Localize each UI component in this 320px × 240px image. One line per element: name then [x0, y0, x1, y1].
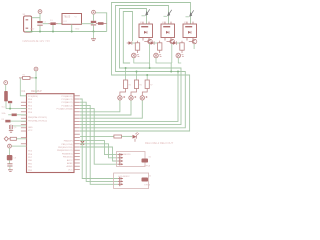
wire IC pin to lamp H3	[80, 100, 142, 118]
capacitor C8	[7, 155, 13, 160]
capacitor C9	[7, 163, 12, 165]
capacitor C6	[12, 114, 17, 117]
capacitor C7	[5, 120, 10, 123]
svg-text:AVCC: AVCC	[67, 159, 73, 162]
indicator lamp	[176, 53, 181, 58]
resistor R2	[135, 43, 139, 50]
svg-text:PB0: PB0	[28, 160, 33, 162]
relay K1	[139, 24, 153, 38]
wire IC2 gnd to rail	[71, 24, 73, 31]
svg-text:C8: C8	[14, 157, 17, 159]
transistor T2	[170, 39, 175, 44]
wire IC pin to JP1 pin1	[80, 141, 118, 155]
wire D1 to rail	[52, 25, 54, 32]
svg-text:R6: R6	[140, 85, 142, 87]
wire C5 down	[9, 103, 11, 108]
relay K2	[161, 24, 175, 38]
wire LED1 down stub	[134, 139, 136, 142]
wire P6 down	[35, 71, 37, 78]
wire IC pin to JP1 pin4	[80, 109, 118, 165]
svg-text:R5: R5	[129, 85, 131, 87]
svg-text:PD5: PD5	[28, 151, 33, 153]
wire net3 IC pin to relay K1	[80, 9, 181, 125]
svg-text:PB3: PB3	[28, 170, 33, 172]
svg-text:C1: C1	[43, 21, 46, 23]
resistor R3	[158, 43, 162, 50]
svg-text:PD0: PD0	[28, 99, 33, 101]
svg-text:Q1: Q1	[14, 127, 18, 129]
wire lamp to riser	[178, 58, 181, 63]
svg-text:IC2: IC2	[64, 21, 68, 23]
svg-text:R7: R7	[150, 85, 152, 87]
wire IC2 out	[82, 23, 94, 25]
wire IC pin to lamp H2	[80, 100, 131, 115]
wire R1 right to node	[33, 77, 36, 79]
svg-text:RX: RX	[2, 119, 5, 121]
capacitor C1	[37, 21, 42, 23]
grey arrow marker	[189, 12, 192, 17]
diode D5	[173, 41, 176, 44]
svg-text:REL1 REL2 REL3 OUT: REL1 REL2 REL3 OUT	[145, 141, 173, 145]
wire C8 down	[9, 160, 11, 163]
svg-text:PD3: PD3	[28, 109, 33, 111]
svg-text:SCL: SCL	[2, 107, 6, 109]
svg-text:GND: GND	[28, 127, 33, 129]
crystal Q1	[8, 125, 10, 129]
wire IC pin to JP1 pin2	[80, 144, 118, 158]
svg-text:VCC: VCC	[68, 169, 73, 171]
wire R1 left down to IC1	[20, 78, 26, 96]
svg-text:MEGA8-P: MEGA8-P	[31, 90, 42, 93]
wire loop to D2	[95, 13, 106, 24]
svg-text:PD7: PD7	[28, 157, 33, 159]
wire node to IC1	[6, 108, 27, 110]
indicator lamp	[154, 53, 159, 58]
svg-text:D1: D1	[50, 20, 53, 22]
wire C1 to rail	[39, 26, 41, 32]
wire net1 IC pin to relay K3	[80, 3, 191, 132]
svg-text:PC0(ADC0): PC0(ADC0)	[62, 95, 73, 98]
wire C9 to ground	[9, 166, 11, 170]
ground rail wire	[26, 31, 107, 33]
resistor R5	[125, 68, 127, 80]
resistor R7	[146, 75, 148, 80]
connector JP2	[114, 173, 149, 189]
grey arrow marker	[167, 11, 170, 16]
supply circle P6	[34, 67, 38, 71]
wire P5 down	[9, 148, 11, 155]
indicator lamp	[132, 53, 137, 58]
svg-text:PD1: PD1	[28, 102, 33, 104]
diode D4	[151, 41, 154, 44]
wire R9 to LED1	[122, 135, 133, 137]
wire crystal to IC1	[13, 125, 27, 127]
grey arrow marker	[145, 11, 148, 16]
indicator lamp	[142, 89, 147, 96]
wire C6 to IC1	[17, 114, 27, 116]
svg-text:PC1(ADC1): PC1(ADC1)	[62, 98, 73, 101]
LED LED1	[133, 135, 137, 139]
svg-text:PC3(ADC3): PC3(ADC3)	[62, 104, 73, 107]
svg-text:GND: GND	[30, 29, 35, 31]
wire supply to C1	[39, 14, 41, 22]
pad S1	[142, 159, 149, 163]
connector X1	[24, 16, 32, 32]
air-wire cross marker	[81, 141, 84, 145]
svg-text:PB1(OC1A): PB1(OC1A)	[62, 143, 73, 146]
svg-text:NAPAJANJE 12V / 5V: NAPAJANJE 12V / 5V	[23, 39, 51, 43]
wire P3 to C4	[5, 85, 7, 92]
svg-text:PB0(ICP): PB0(ICP)	[64, 141, 73, 143]
resistor R1	[23, 76, 30, 79]
svg-text:S2: S2	[149, 176, 152, 178]
transistor T1	[148, 39, 153, 44]
wire IC pin to resistor R9	[80, 135, 114, 137]
svg-text:SDA: SDA	[2, 112, 7, 115]
wire lamp to riser	[156, 58, 172, 63]
wire IC pin to JP1 pin3	[80, 147, 118, 161]
svg-text:PB6(XTAL1/TOSC1): PB6(XTAL1/TOSC1)	[28, 116, 47, 119]
IC1 right pin stubs	[74, 95, 80, 97]
svg-text:PB2: PB2	[28, 167, 33, 169]
svg-text:GND: GND	[75, 29, 80, 31]
svg-text:PB2(SS/OC1B): PB2(SS/OC1B)	[58, 147, 73, 149]
pad S2	[142, 178, 149, 182]
IC1 left pin stubs	[21, 101, 27, 103]
wire IC pin to lamp H1	[80, 100, 120, 112]
svg-text:PB5(SCK): PB5(SCK)	[63, 157, 73, 159]
svg-text:AGND: AGND	[66, 165, 73, 168]
svg-text:PC6(RES): PC6(RES)	[28, 96, 38, 98]
capacitor C4	[4, 91, 8, 101]
svg-text:AREF: AREF	[67, 162, 73, 165]
resistor R4	[180, 43, 184, 50]
supply +12V P1	[38, 10, 42, 14]
capacitor C3	[91, 21, 96, 23]
capacitor C5	[8, 101, 12, 103]
indicator lamp	[131, 89, 137, 96]
svg-text:IC1: IC1	[22, 90, 26, 93]
wire C3 to rail	[93, 25, 95, 31]
svg-text:TIPKA: TIPKA	[144, 164, 151, 167]
diode D2	[98, 22, 104, 25]
wire P5 to IC1	[11, 145, 26, 147]
supply circle P3	[4, 81, 8, 85]
diode D3	[129, 41, 132, 44]
riser channel 2 to bus	[170, 63, 172, 72]
wire node down to IC1	[35, 78, 37, 94]
wire X1 to node	[32, 17, 40, 19]
ground GND1	[93, 32, 95, 39]
wire lamp to riser	[134, 58, 150, 63]
svg-text:PB1: PB1	[28, 163, 33, 165]
resistor R8	[10, 137, 16, 140]
transistor T3	[192, 39, 197, 44]
svg-text:PD2: PD2	[28, 105, 33, 107]
microcontroller IC1 body	[27, 94, 75, 173]
junction dots on rail	[31, 31, 33, 33]
svg-text:PC2(ADC2): PC2(ADC2)	[62, 101, 73, 104]
connector JP1	[117, 152, 146, 167]
wire IC pin to JP2 pin2	[80, 102, 118, 181]
wire IC pin to JP2 pin1	[80, 99, 118, 179]
wire R8 to IC1	[16, 138, 26, 140]
ground GND2	[10, 130, 12, 131]
indicator lamp	[120, 89, 126, 96]
wire D2 to rail	[106, 24, 108, 32]
svg-text:PB7(XTAL2/TOSC2): PB7(XTAL2/TOSC2)	[28, 119, 47, 122]
relay K3	[183, 24, 197, 38]
wire net2 IC pin to relay K2	[80, 6, 185, 128]
svg-text:VI: VI	[75, 17, 77, 19]
svg-text:78L05: 78L05	[64, 16, 71, 19]
svg-text:PD6: PD6	[28, 154, 33, 156]
wire C1 to D1	[43, 23, 49, 25]
wire IC pin to JP2 pin3	[80, 105, 118, 184]
voltage regulator IC2 7805	[62, 14, 82, 25]
svg-text:TIPKA: TIPKA	[144, 183, 151, 186]
supply diamond P4	[4, 137, 8, 141]
svg-text:PD4: PD4	[28, 112, 33, 114]
svg-text:PB4(MISO): PB4(MISO)	[62, 153, 73, 155]
riser channel 1 to bus	[149, 63, 151, 68]
supply circle P5	[8, 144, 12, 148]
svg-text:S1: S1	[149, 157, 152, 159]
svg-text:VCC: VCC	[28, 130, 33, 132]
supply +5V P2	[92, 10, 96, 14]
resistor R9	[114, 135, 122, 138]
svg-text:PB3(MOSI/OC2): PB3(MOSI/OC2)	[57, 150, 73, 152]
wire P2 to C3	[93, 14, 95, 21]
ground GND3	[8, 169, 13, 171]
wire C4 down	[5, 101, 7, 108]
diode D1	[50, 22, 55, 25]
resistor R6	[136, 72, 138, 81]
wire net5 bus to driver channel 1	[123, 12, 132, 64]
wire D1 to IC2	[58, 23, 62, 25]
wire C7 to IC1	[11, 120, 27, 122]
wire net4 IC pin to bus	[80, 72, 178, 122]
svg-text:PC4(ADC4/SDA): PC4(ADC4/SDA)	[57, 108, 73, 111]
